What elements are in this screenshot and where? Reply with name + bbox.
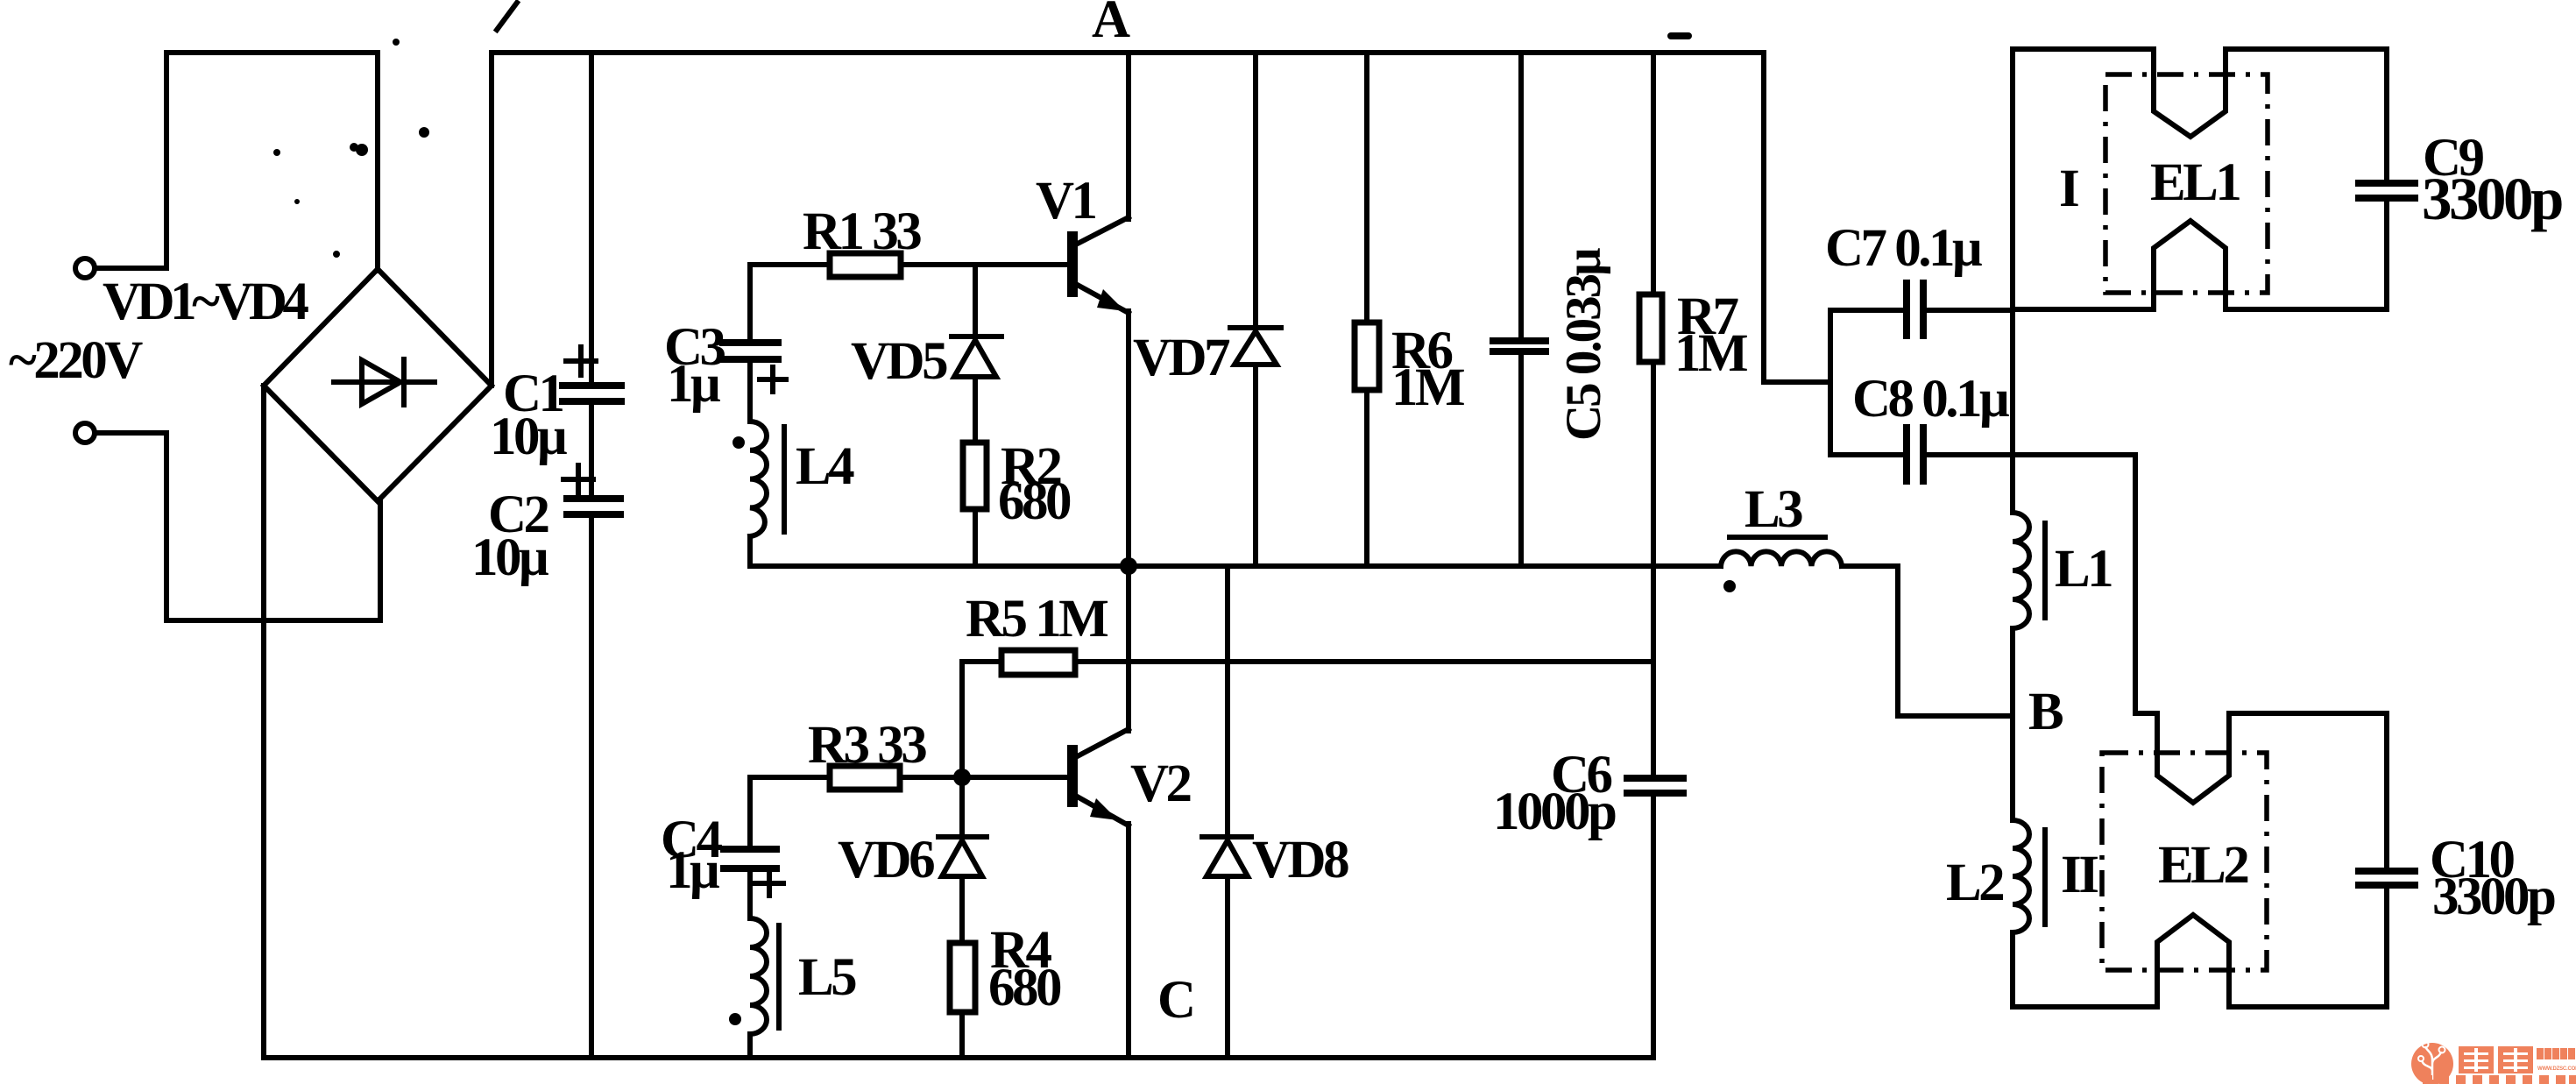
svg-text:10μ: 10μ	[490, 407, 567, 466]
wire	[1126, 566, 1131, 731]
svg-text:II: II	[2061, 846, 2098, 904]
watermark logo	[2411, 1042, 2453, 1084]
wire	[747, 777, 753, 847]
wire	[747, 871, 753, 918]
wire (R1 row)	[750, 262, 1071, 267]
svg-text:VD7: VD7	[1133, 329, 1230, 387]
wire (A rail to C7C8)	[1764, 53, 1830, 382]
svg-text:VD5: VD5	[851, 332, 947, 391]
wire (L1 to B)	[2010, 628, 2015, 716]
wire	[96, 430, 166, 436]
wire (bridge positive up)	[489, 53, 494, 386]
wire (bottom rail)	[264, 1055, 1653, 1060]
wire	[1126, 824, 1131, 1058]
tube outline EL1 (dash-dot)	[2105, 74, 2268, 293]
wire (C9 to EL1 bottom)	[2384, 200, 2389, 309]
svg-text:R5 1M: R5 1M	[966, 590, 1108, 648]
stray mark	[497, 3, 517, 30]
svg-text:1000p: 1000p	[1493, 783, 1616, 841]
svg-text:L2: L2	[1946, 854, 2003, 912]
wire (C10 to EL2 bottom)	[2384, 887, 2389, 1007]
wire (C7C8 left bar)	[1828, 310, 1833, 455]
wire	[1126, 311, 1131, 566]
capacitor C8	[1830, 424, 2135, 485]
wire	[747, 265, 753, 341]
bridge rectifier VD1~VD4	[264, 269, 492, 501]
transistor V2	[1072, 729, 1129, 825]
watermark brand glyphs	[2459, 1046, 2533, 1073]
wire	[589, 516, 594, 1058]
capacitor C4	[720, 849, 780, 868]
polarity dot L4	[732, 436, 745, 449]
svg-text:V2: V2	[1130, 755, 1191, 813]
svg-text:B: B	[2028, 683, 2063, 741]
wire	[166, 53, 378, 271]
watermark small glyphs row	[2537, 1048, 2575, 1059]
plus sign C1	[566, 347, 596, 375]
watermark slogan glyphs	[2423, 1075, 2576, 1084]
wire (L3 to B)	[1898, 566, 2013, 716]
svg-text:EL1: EL1	[2150, 153, 2240, 212]
capacitor C7	[1830, 280, 2013, 339]
svg-text:1M: 1M	[1674, 324, 1747, 383]
resistor R5	[1001, 650, 1075, 675]
resistor R4	[950, 943, 975, 1058]
inductor L3	[1721, 537, 1898, 566]
svg-text:I: I	[2059, 159, 2078, 218]
svg-text:3300p: 3300p	[2422, 166, 2562, 232]
wire (EL2 bottom right)	[2229, 1004, 2387, 1010]
svg-text:3300p: 3300p	[2432, 868, 2555, 926]
svg-text:L5: L5	[798, 948, 856, 1007]
inductor L4	[750, 422, 784, 536]
wire (top rail A)	[492, 50, 1764, 55]
capacitor C3	[719, 343, 782, 359]
wire (EL1 top right)	[2226, 46, 2387, 52]
svg-text:~220V: ~220V	[9, 331, 143, 390]
input terminal T2	[75, 423, 95, 443]
diode VD5	[952, 265, 1001, 443]
input terminal T1	[75, 259, 95, 278]
wire (EL2 right down to C10)	[2384, 713, 2389, 868]
svg-text:VD6: VD6	[838, 831, 934, 889]
svg-text:R3 33: R3 33	[808, 716, 926, 775]
svg-text:V1: V1	[1036, 172, 1096, 230]
svg-text:L1: L1	[2055, 540, 2112, 599]
wire	[747, 362, 753, 422]
wire	[1126, 53, 1131, 219]
lamp EL1	[2013, 49, 2387, 309]
inductor L2	[2013, 820, 2045, 932]
polarity dot L3	[1723, 580, 1736, 592]
wire (L2 down)	[2010, 932, 2015, 1007]
junction dot	[1120, 557, 1137, 575]
diode VD6	[938, 777, 987, 943]
filament EL1 top	[2154, 49, 2226, 137]
svg-text:VD8: VD8	[1252, 831, 1348, 889]
polarity dot L5	[729, 1013, 741, 1025]
svg-text:680: 680	[988, 959, 1061, 1017]
svg-text:10μ: 10μ	[471, 528, 548, 587]
wire	[747, 1034, 753, 1058]
wire (C8 to EL2)	[2135, 455, 2157, 713]
svg-text:C5 0.033μ: C5 0.033μ	[1556, 248, 1611, 441]
wire (B to L2)	[2010, 716, 2015, 820]
wire (EL2 top right)	[2229, 711, 2387, 716]
capacitor C9	[2355, 183, 2418, 198]
wire (bridge negative down)	[261, 386, 266, 1058]
filament EL2 bottom	[2157, 915, 2229, 1007]
wire (EL1 bottom left)	[2013, 307, 2154, 312]
wire (mid rail)	[750, 563, 1721, 569]
wire (EL1 right down to C9)	[2384, 49, 2389, 181]
svg-text:R1 33: R1 33	[803, 202, 921, 261]
svg-text:A: A	[1092, 0, 1130, 49]
wire	[96, 266, 166, 271]
plus sign C2	[563, 465, 593, 493]
lamp EL2	[2013, 713, 2387, 1007]
diode VD7	[1230, 53, 1281, 566]
wire	[589, 403, 594, 496]
wire (R5 row)	[962, 659, 1653, 664]
resistor R1	[830, 253, 901, 277]
svg-text:L4: L4	[796, 437, 854, 496]
wire (EL1 to L1)	[2010, 309, 2015, 513]
transistor V1	[1072, 217, 1129, 313]
wire (EL1 top)	[2013, 46, 2154, 52]
plus sign C3	[760, 367, 786, 392]
resistor R7	[1639, 53, 1662, 776]
filament EL1 bottom	[2154, 221, 2226, 309]
svg-text:C8 0.1μ: C8 0.1μ	[1852, 370, 2009, 429]
resistor R6	[1355, 53, 1379, 566]
wire (EL1 left side)	[2010, 49, 2015, 309]
capacitor C6	[1624, 778, 1687, 1058]
wire (R3 row)	[750, 775, 1071, 780]
capacitor C10	[2355, 871, 2418, 885]
scan specks	[273, 32, 1692, 258]
inductor L1	[2013, 513, 2045, 628]
wire (EL1 bottom right)	[2226, 307, 2387, 312]
capacitor C2	[563, 499, 624, 514]
svg-text:EL2: EL2	[2158, 836, 2247, 895]
capacitor C5	[1490, 53, 1549, 566]
diode VD8	[1202, 566, 1251, 1058]
svg-text:1μ: 1μ	[666, 841, 719, 900]
svg-text:1M: 1M	[1391, 358, 1464, 417]
resistor R2	[963, 443, 987, 566]
filament EL2 top	[2157, 713, 2229, 803]
svg-text:WWW.DZSC.COM: WWW.DZSC.COM	[2537, 1066, 2576, 1072]
wire (EL2 bottom left)	[2013, 1004, 2157, 1010]
svg-text:C7 0.1μ: C7 0.1μ	[1825, 219, 1982, 278]
junction dot	[953, 769, 971, 786]
wire	[589, 53, 594, 384]
tube outline EL2 (dash-dot)	[2102, 753, 2267, 970]
wire	[166, 433, 380, 620]
wire	[747, 536, 753, 566]
wire	[959, 662, 965, 777]
svg-text:VD1~VD4: VD1~VD4	[103, 273, 308, 331]
capacitor C1	[559, 386, 625, 401]
svg-text:1μ: 1μ	[667, 355, 720, 414]
inductor L5	[750, 918, 779, 1034]
resistor R3	[830, 766, 900, 790]
svg-text:L3: L3	[1744, 480, 1802, 539]
plus sign C4	[755, 871, 783, 896]
svg-text:C: C	[1157, 971, 1193, 1030]
svg-text:680: 680	[998, 472, 1071, 531]
